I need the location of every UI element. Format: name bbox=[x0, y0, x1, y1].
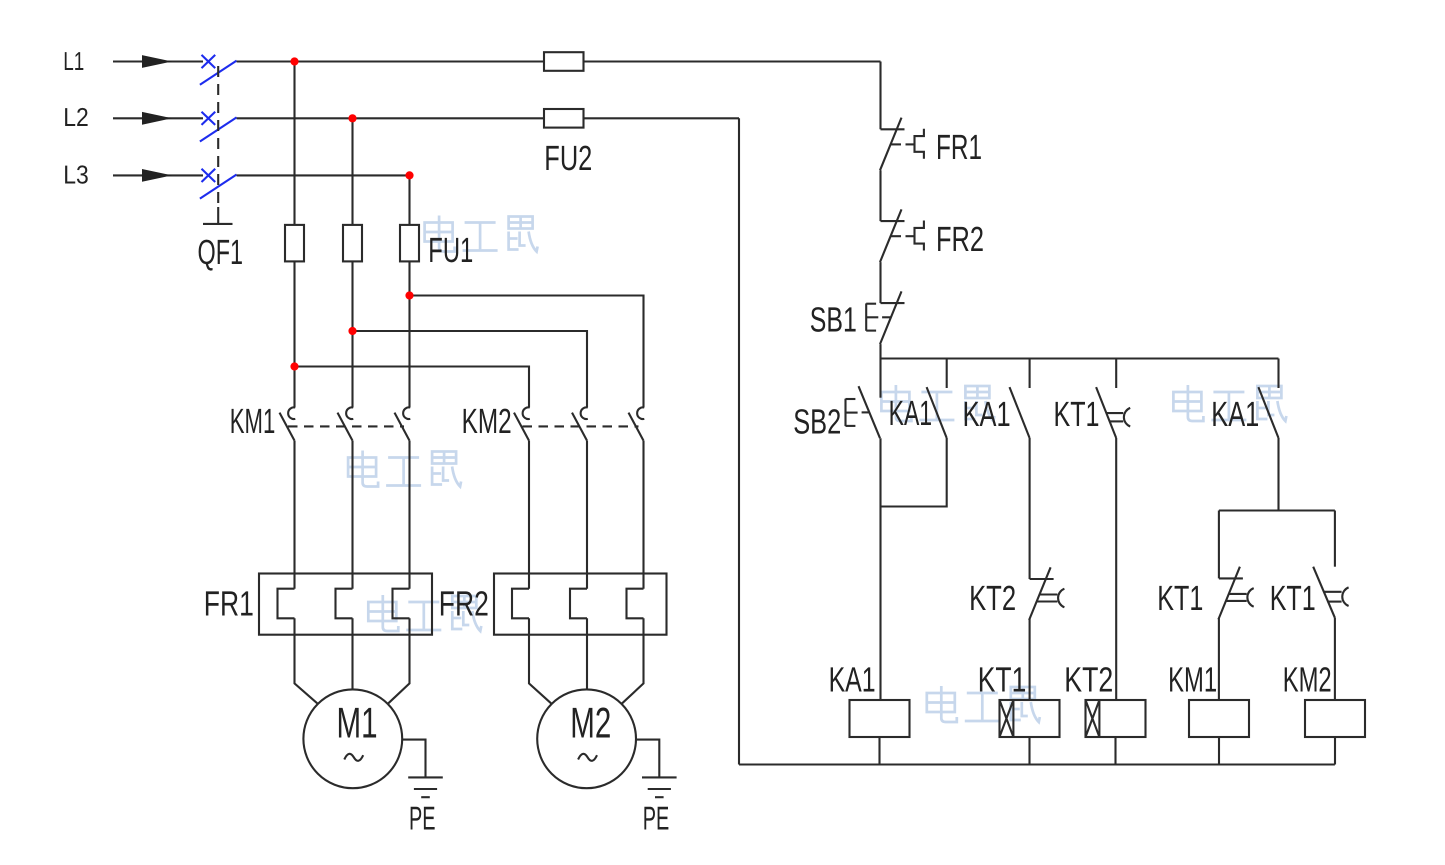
wire KM1 pole to FR1 bbox=[408, 441, 410, 589]
svg-text:SB1: SB1 bbox=[810, 301, 857, 340]
pushbutton SB2 (NO start) bbox=[846, 359, 881, 439]
label KA1 bbox=[829, 660, 876, 699]
wire KT2 contact to KT1 coil bbox=[1029, 619, 1031, 700]
thermal contact FR2 (NC) bbox=[880, 209, 924, 262]
pushbutton SB1 (NC stop) bbox=[866, 291, 904, 344]
timer contact KT1 branch4 (NO delayed) bbox=[1096, 359, 1130, 439]
wire phase C vertical below fuse bbox=[408, 261, 410, 407]
label KT1 bbox=[978, 660, 1027, 699]
label KT2 bbox=[969, 579, 1016, 618]
timer contact KT1 right (NO delayed) bbox=[1313, 567, 1348, 618]
wire coil tail bbox=[1218, 737, 1220, 765]
wire KM1 pole to FR1 bbox=[293, 441, 295, 589]
wire phase A vertical bbox=[293, 62, 295, 225]
svg-text:M1: M1 bbox=[337, 700, 378, 748]
wire KT1 left contact to KM1 coil bbox=[1218, 618, 1220, 700]
wire control drop from L1 bbox=[879, 62, 881, 130]
wire coil tail bbox=[1028, 737, 1030, 765]
svg-text:PE: PE bbox=[643, 800, 670, 837]
wire KT1 right contact to KM2 coil bbox=[1334, 618, 1336, 700]
wire tee left leg bbox=[1218, 511, 1220, 579]
label L1 bbox=[63, 46, 84, 76]
label M1 bbox=[337, 700, 378, 748]
overload relay FR2 box bbox=[494, 574, 667, 635]
wire KM2 pole to FR2 bbox=[586, 441, 588, 589]
label FR1 bbox=[936, 128, 982, 167]
relay coil KA1 bbox=[850, 700, 910, 737]
fuse FU1 pole 2 bbox=[343, 225, 362, 262]
wire bottom return rail bbox=[739, 763, 1335, 765]
label FR1 bbox=[204, 584, 254, 623]
wire L2 line bbox=[237, 117, 544, 119]
svg-text:KA1: KA1 bbox=[889, 394, 933, 433]
svg-text:KT2: KT2 bbox=[969, 579, 1016, 618]
label KT1 bbox=[1270, 579, 1316, 618]
wire crossover phase A to KM2 pole 1 bbox=[295, 367, 530, 408]
fuse FU1 pole 3 bbox=[400, 225, 419, 262]
svg-text:L3: L3 bbox=[63, 159, 89, 189]
timer coil KT2 bbox=[1086, 700, 1146, 737]
wire L3 line bbox=[237, 174, 410, 176]
wire branch3 down to KT2 contact bbox=[1029, 438, 1031, 579]
contactor KM1 main contacts bbox=[280, 407, 411, 440]
svg-text:KT2: KT2 bbox=[1064, 660, 1113, 699]
wire SB1 to bus bbox=[879, 344, 881, 358]
wire SB2 to KA1 coil branch bbox=[879, 438, 881, 700]
relay contact KA1 branch5 (NO) bbox=[1258, 359, 1278, 439]
wire KM2 pole to FR2 bbox=[642, 441, 644, 589]
wire between FR1 and FR2 contacts bbox=[879, 170, 881, 221]
svg-text:FU2: FU2 bbox=[544, 139, 592, 178]
label M2 bbox=[570, 700, 611, 748]
svg-text:PE: PE bbox=[409, 800, 436, 837]
svg-text:KA1: KA1 bbox=[963, 395, 1011, 434]
breaker QF1 bbox=[200, 55, 237, 224]
wire KM2 pole to FR2 bbox=[528, 441, 530, 589]
junction dot (352.5,331) bbox=[348, 327, 356, 335]
wire coil tail bbox=[878, 737, 880, 765]
svg-text:FU1: FU1 bbox=[428, 231, 473, 270]
svg-text:QF1: QF1 bbox=[198, 233, 244, 272]
wire FR1 to M1 leads bbox=[295, 618, 410, 704]
label FR2 bbox=[936, 220, 984, 259]
relay contact KA1 branch3 (NO) bbox=[1010, 359, 1030, 439]
label KT1 bbox=[1157, 579, 1203, 618]
svg-text:KM1: KM1 bbox=[230, 402, 275, 441]
wire L2 line after FU2 to right drop bbox=[584, 117, 740, 119]
node L1 feed arrow bbox=[113, 55, 203, 68]
svg-text:FR1: FR1 bbox=[936, 128, 982, 167]
svg-text:L1: L1 bbox=[63, 46, 84, 76]
wire phase A vertical below fuse bbox=[293, 261, 295, 407]
wire branch4 to KT2 coil bbox=[1115, 438, 1117, 700]
label L2 bbox=[63, 102, 89, 132]
svg-text:KT1: KT1 bbox=[1054, 395, 1100, 434]
wire coil tail bbox=[1114, 737, 1116, 765]
label QF1 bbox=[198, 233, 244, 272]
svg-text:FR1: FR1 bbox=[204, 584, 254, 623]
svg-text:KT1: KT1 bbox=[1157, 579, 1203, 618]
label FR2 bbox=[439, 584, 489, 623]
label KT1 bbox=[1054, 395, 1100, 434]
svg-text:KT1: KT1 bbox=[978, 660, 1027, 699]
wire branch5 split tee bbox=[1219, 438, 1335, 511]
label KM2 bbox=[462, 402, 512, 441]
svg-text:SB2: SB2 bbox=[793, 403, 841, 442]
fuse FU1 pole 1 bbox=[285, 225, 304, 262]
fuse FU2 pole 1 bbox=[544, 52, 584, 71]
overload relay FR2 heaters bbox=[512, 589, 644, 619]
wire L1 line bbox=[237, 60, 544, 62]
motor M2 bbox=[537, 689, 636, 788]
watermark 电工鼠 (decor layer) bbox=[348, 216, 1286, 723]
node L3 feed arrow bbox=[113, 169, 203, 182]
overload relay FR1 box bbox=[259, 574, 432, 635]
svg-text:KM1: KM1 bbox=[1168, 660, 1217, 699]
timer coil KT1 bbox=[1000, 700, 1060, 737]
motor M1 AC squiggle bbox=[344, 754, 363, 761]
wire right return drop from L2 bbox=[738, 118, 740, 764]
label SB1 bbox=[810, 301, 857, 340]
junction dot (409.5,295.5) bbox=[405, 291, 413, 299]
svg-text:FR2: FR2 bbox=[439, 584, 489, 623]
timer contact KT1 left (NC delayed) bbox=[1218, 567, 1253, 620]
label PE of M2 bbox=[643, 800, 670, 837]
label SB2 bbox=[793, 403, 841, 442]
wire between FR2 and SB1 bbox=[879, 262, 881, 303]
svg-text:L2: L2 bbox=[63, 102, 89, 132]
label FU1 bbox=[428, 231, 473, 270]
wire tee right leg bbox=[1334, 511, 1336, 567]
wire phase B vertical below fuse bbox=[351, 261, 353, 407]
svg-text:KA1: KA1 bbox=[829, 660, 876, 699]
wire phase C vertical bbox=[408, 175, 410, 225]
wire L1 line after FU2 to control drop bbox=[584, 60, 881, 62]
label KA1 bbox=[1211, 395, 1259, 434]
label FU2 bbox=[544, 139, 592, 178]
junction dot (294.5,366.5) bbox=[290, 362, 298, 370]
wire KM1 pole to FR1 bbox=[351, 441, 353, 589]
ground PE of M1 bbox=[402, 740, 443, 798]
svg-text:KM2: KM2 bbox=[462, 402, 512, 441]
wire control bus bbox=[881, 357, 1279, 359]
motor M1 bbox=[303, 689, 402, 788]
label KA1 bbox=[963, 395, 1011, 434]
wire coil tail bbox=[1334, 737, 1336, 765]
fuse FU2 pole 2 bbox=[544, 109, 584, 128]
overload relay FR1 heaters bbox=[278, 589, 410, 619]
label KA1 bbox=[889, 394, 933, 433]
contactor coil KM1 bbox=[1189, 700, 1249, 737]
wire crossover phase C to KM2 pole 3 bbox=[410, 296, 644, 408]
label PE of M1 bbox=[409, 800, 436, 837]
label KM1 bbox=[230, 402, 275, 441]
wire phase B vertical bbox=[351, 118, 353, 225]
label KM2 bbox=[1283, 660, 1332, 699]
svg-text:KT1: KT1 bbox=[1270, 579, 1316, 618]
motor M2 AC squiggle bbox=[578, 754, 597, 761]
node L2 feed arrow bbox=[113, 112, 203, 125]
junction dot (409.5,175.4) bbox=[405, 171, 413, 179]
svg-text:M2: M2 bbox=[570, 700, 611, 748]
junction dot (294.5,61.5) bbox=[290, 57, 298, 65]
wire crossover phase B to KM2 pole 2 bbox=[353, 331, 588, 407]
thermal contact FR1 (NC) bbox=[880, 118, 924, 171]
wire FR2 to M2 leads bbox=[529, 618, 644, 704]
junction dot (352.5,118.3) bbox=[348, 114, 356, 122]
contactor coil KM2 bbox=[1305, 700, 1365, 737]
contactor KM2 main contacts bbox=[514, 407, 644, 440]
timer contact KT2 (NC delayed) bbox=[1029, 567, 1064, 620]
label KT2 bbox=[1064, 660, 1113, 699]
ground PE of M2 bbox=[636, 740, 677, 798]
label KM1 bbox=[1168, 660, 1217, 699]
svg-text:KA1: KA1 bbox=[1211, 395, 1259, 434]
svg-text:FR2: FR2 bbox=[936, 220, 984, 259]
label L3 bbox=[63, 159, 89, 189]
svg-text:KM2: KM2 bbox=[1283, 660, 1332, 699]
wire KA1 contact join to SB2 branch bbox=[881, 438, 947, 507]
relay contact KA1 self-hold (NO) bbox=[927, 359, 947, 439]
